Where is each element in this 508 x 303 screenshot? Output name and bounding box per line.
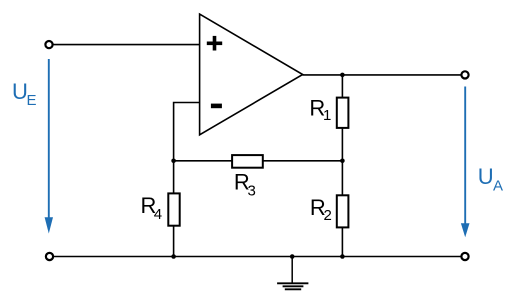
- junction feedback right: [340, 159, 345, 164]
- svg-text:4: 4: [154, 206, 162, 223]
- svg-text:1: 1: [323, 107, 331, 124]
- ground: [277, 257, 308, 290]
- arrow UA: [461, 87, 470, 238]
- wire right branch: [341, 75, 343, 257]
- arrow UE: [45, 59, 53, 234]
- svg-text:3: 3: [248, 182, 256, 199]
- svg-text:A: A: [493, 178, 503, 195]
- wire inverting input: [174, 103, 200, 257]
- junction output node: [340, 73, 345, 78]
- junction rail ground: [290, 254, 295, 259]
- svg-text:2: 2: [324, 207, 332, 224]
- op-amp U1: [200, 14, 303, 135]
- terminal input top-left: [45, 41, 52, 48]
- junction rail R4: [171, 254, 176, 259]
- terminal output top-right: [461, 71, 468, 78]
- svg-text:E: E: [27, 92, 37, 109]
- wire feedback R3: [174, 160, 343, 162]
- resistor R3: [232, 155, 263, 199]
- resistor R2: [310, 195, 349, 227]
- wire bottom rail: [54, 256, 461, 258]
- resistor R1: [309, 95, 348, 128]
- wire output: [303, 74, 461, 76]
- svg-text:U: U: [12, 79, 28, 104]
- terminal bottom-left: [46, 253, 53, 260]
- label UE: [12, 79, 37, 109]
- terminal bottom-right: [461, 253, 468, 260]
- resistor R4: [141, 193, 180, 226]
- wire input (+): [53, 44, 199, 46]
- svg-text:U: U: [478, 164, 494, 189]
- junction feedback left: [171, 159, 176, 164]
- label UA: [478, 164, 503, 195]
- junction rail R2: [340, 254, 345, 259]
